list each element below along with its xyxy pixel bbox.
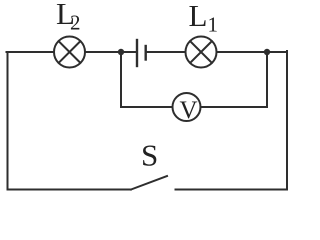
svg-text:L: L [189,0,208,33]
wire L1 to node B [217,51,268,53]
wire node B to top right corner [267,51,287,53]
switch S blade [131,176,167,190]
svg-text:2: 2 [70,11,81,35]
svg-text:V: V [180,97,198,124]
lamp L1 [186,37,217,68]
wire voltmeter branch right riser [266,52,268,107]
wire battery to L1 [147,51,186,53]
wire voltmeter branch left drop [120,52,122,107]
label L2 [56,0,81,35]
svg-text:1: 1 [208,13,219,37]
node A junction dot [118,49,124,55]
wire bottom rail right [176,189,288,191]
wire bottom rail left [8,189,132,191]
wire left rail [7,52,9,189]
label L1 [189,0,219,37]
wire voltmeter branch right horizontal [201,106,268,108]
svg-text:S: S [141,138,158,173]
voltmeter V1 [173,93,201,121]
node B junction dot [264,49,270,55]
wire voltmeter branch left horizontal [121,106,173,108]
lamp L2 [54,37,85,68]
wire right rail [286,51,288,189]
wire node A to battery [121,51,136,53]
wire top rail L2 to node A [85,51,121,53]
battery cell [137,40,146,66]
wire top rail left segment [7,51,55,53]
